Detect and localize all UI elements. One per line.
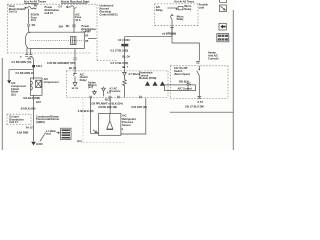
svg-text:(2x): (2x): [11, 92, 16, 96]
leader text and arrow to striped box: [46, 129, 59, 136]
svg-text:M1: M1: [32, 23, 36, 27]
label A/C Refrigerant Pressure Sensor: [122, 114, 136, 128]
svg-text:Link: Link: [199, 5, 205, 9]
arrows near instrument: [93, 90, 97, 95]
wire right fuse down: [73, 8, 75, 33]
svg-text:Frt G?: Frt G?: [26, 126, 34, 130]
underhood fuse block dashed box: [7, 4, 97, 53]
UI small table: [217, 34, 229, 42]
connector ticks at heater bottom exit: [198, 97, 202, 99]
page left border: [1, 58, 3, 150]
svg-text:Hot At All Times: Hot At All Times: [174, 0, 194, 4]
right fuse arrow and text: [59, 4, 71, 8]
svg-text:Relay: Relay: [156, 8, 163, 12]
frame divider line bottom right: [170, 111, 234, 113]
svg-text:(UBEC): (UBEC): [36, 120, 45, 124]
label ECM B Fuse 10A: [31, 13, 39, 23]
title Hot At All Times: [24, 0, 46, 4]
svg-text:A T2: A T2: [197, 100, 203, 104]
svg-text:4(C): 4(C): [105, 98, 110, 102]
fuse block detail text left: [9, 4, 26, 14]
relay inside text right: [184, 4, 191, 11]
relay output wire down: [172, 26, 199, 61]
label C4 C203: [118, 38, 130, 42]
heater label above: [208, 51, 219, 61]
svg-text:0.5 LT BLU (D): 0.5 LT BLU (D): [111, 61, 129, 65]
label AC pressure: [109, 86, 121, 93]
switch symbol: [197, 66, 200, 99]
svg-text:Module (PCM): Module (PCM): [139, 76, 156, 80]
connector tick: [170, 27, 173, 29]
long horizontal wire to C203: [125, 26, 173, 37]
svg-text:Relay: Relay: [184, 7, 191, 11]
connectors below stadium: [20, 55, 32, 61]
stadium compressor clutch coil body: [25, 32, 84, 48]
PCM resistor zigzag: [123, 79, 127, 97]
left fuse arrow: [25, 7, 28, 9]
wire compressor to ground: [32, 95, 34, 141]
right fuse A/C: [71, 6, 77, 9]
mid text Power Distribution Cell 10: [45, 5, 60, 15]
heater inside text: [174, 66, 190, 76]
relay inside text left: [156, 5, 163, 12]
connector on left wire: [27, 23, 36, 27]
left fuse ECM B: [28, 6, 34, 9]
label A/C Compressor Clutch Diode: [11, 81, 26, 96]
inner coil detail: [71, 37, 76, 45]
svg-text:BL ?: BL ?: [122, 65, 128, 69]
diagonal leader: [40, 133, 46, 142]
svg-text:0.8 DK BLU (M): 0.8 DK BLU (M): [98, 105, 117, 109]
corner down at x 120: [124, 37, 126, 71]
ground distribution dashed box: [7, 114, 31, 124]
svg-text:(xx): (xx): [77, 139, 82, 143]
UBEC label: [100, 4, 118, 17]
stadium right labels: [85, 29, 96, 43]
svg-text:Controls: Controls: [208, 57, 219, 61]
svg-text:Pressure: Pressure: [109, 89, 121, 93]
pressure sensor box: [97, 113, 124, 135]
svg-text:od BRN (M): od BRN (M): [162, 32, 176, 36]
heater A/C control dashed box: [170, 66, 228, 99]
wire continue: [74, 60, 76, 72]
svg-text:BL G#: BL G#: [122, 54, 130, 58]
left fuse top text: [34, 4, 38, 11]
svg-text:A/C Control: A/C Control: [178, 86, 193, 90]
svg-text:0.38 BLK (M): 0.38 BLK (M): [78, 109, 94, 113]
diode triangle: [7, 80, 11, 84]
svg-text:Cell 10: Cell 10: [45, 11, 54, 15]
svg-text:Cell 14: Cell 14: [9, 120, 18, 124]
PCM dashed box: [66, 71, 168, 98]
svg-text:Cell 11: Cell 11: [9, 10, 18, 14]
relay dashed box top right: [155, 4, 199, 26]
relay box right label: [199, 3, 209, 10]
relay title: [174, 0, 194, 4]
harness boundary dashed faint: [83, 99, 125, 143]
compressor clutch box: [31, 78, 43, 95]
PCM warning triangles: [145, 81, 165, 86]
svg-text:0.8A DNE: 0.8A DNE: [17, 131, 29, 135]
svg-text:(Norm Open): (Norm Open): [174, 72, 190, 76]
UI box 3 left arrow: [219, 23, 226, 30]
wire branch left to diode: [9, 70, 33, 80]
svg-text:10 A: 10 A: [31, 18, 37, 22]
arrow down open: [73, 83, 77, 87]
sedan wagon text: [88, 80, 97, 89]
switch symbol inside PCM: [73, 73, 77, 83]
relay contacts: [170, 14, 173, 26]
connector into heater box: [196, 61, 199, 63]
svg-text:(xx): (xx): [88, 85, 93, 89]
label A/C Fuse 10A: [75, 12, 82, 22]
page right border: [232, 10, 234, 150]
connector marks at heater exit: [197, 100, 203, 104]
PCM label: [139, 71, 156, 81]
svg-text:G10: G10: [36, 100, 41, 104]
svg-text:Relay: Relay: [80, 78, 87, 82]
connector on DK GRN/WHT: [73, 58, 76, 60]
wire into stadium: [29, 27, 31, 33]
relay lower text: [177, 14, 184, 21]
sensor left wire: [90, 98, 98, 133]
svg-text:S4 BLK (S#): S4 BLK (S#): [21, 106, 36, 110]
svg-text:C4: C4: [59, 4, 63, 8]
svg-text:(xx): (xx): [46, 131, 51, 135]
svg-text:C4 ?: C4 ?: [85, 29, 91, 33]
svg-text:10 A: 10 A: [75, 18, 81, 22]
splice S114: [32, 64, 42, 68]
svg-text:Sensor: Sensor: [122, 123, 131, 127]
svg-text:0.52 GRY (M): 0.52 GRY (M): [131, 105, 147, 109]
wire DK GRN/WHT below stadium right: [74, 49, 76, 58]
svg-text:S/A BLK (RM): S/A BLK (RM): [23, 96, 40, 100]
sensor right wire: [121, 98, 146, 134]
svg-text:C4 | C203: C4 | C203: [118, 38, 130, 42]
arrow into sensor: [93, 130, 96, 133]
UI box 1 top partial: [220, 0, 227, 2]
svg-text:0.35 DK GRN/WHT (D5): 0.35 DK GRN/WHT (D5): [47, 61, 76, 65]
label A/C Compressor: [44, 77, 59, 84]
striped box: [61, 128, 71, 139]
connector blob: [121, 44, 128, 47]
label A/C Clutch Relay: [80, 72, 88, 82]
svg-text:Relay: Relay: [177, 17, 184, 21]
svg-text:A? Mount: A? Mount: [128, 72, 140, 76]
connector on right wire: [59, 24, 76, 28]
sensor mid wire: [109, 98, 111, 113]
svg-text:30A: 30A: [59, 24, 64, 28]
svg-text:3-B LT BLU DM: 3-B LT BLU DM: [185, 104, 204, 108]
two wires below stadium: [27, 48, 30, 54]
label condenser blower right: [36, 114, 59, 124]
svg-text:Center (UBEC): Center (UBEC): [100, 13, 118, 17]
heater inner solid box: [165, 85, 196, 91]
svg-text:0.5 DK GRN 18: 0.5 DK GRN 18: [16, 71, 35, 75]
svg-text:G103: G103: [36, 142, 43, 146]
svg-text:S114: S114: [36, 64, 42, 68]
UI box 2 diagonal: [219, 5, 226, 12]
svg-text:0.5 DK GRN (19): 0.5 DK GRN (19): [12, 60, 32, 64]
wire converge to main: [31, 57, 34, 80]
svg-text:Compressor: Compressor: [44, 80, 59, 84]
relay coil: [168, 7, 184, 10]
PCM bottom connectors: [89, 96, 142, 98]
svg-text:0.5 LT BLU (D): 0.5 LT BLU (D): [111, 49, 129, 53]
title Hot In Run And Start: [61, 0, 89, 3]
dashed stub right: [97, 53, 117, 61]
wire left fuse down: [28, 9, 30, 24]
PCM input arrow symbol: [123, 71, 141, 80]
svg-text:xx xx: xx xx: [72, 87, 79, 90]
text power distribution cell 10 right: [81, 24, 96, 34]
ground symbol G103: [31, 142, 43, 146]
